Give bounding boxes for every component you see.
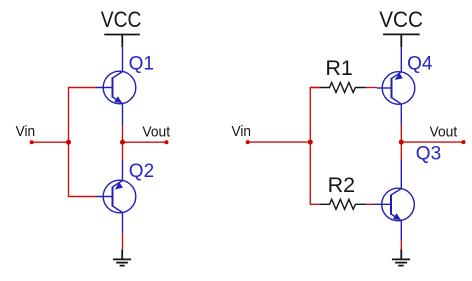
junction dot at Vin tee (right) — [308, 140, 313, 145]
wire R2 right lead to Q3 base — [366, 203, 373, 205]
ground symbol (right) — [392, 249, 410, 265]
resistor R2 — [319, 199, 366, 209]
svg-text:Vin: Vin — [232, 124, 252, 140]
ground symbol (left) — [113, 249, 131, 265]
transistor Q1 (NPN) — [96, 47, 136, 125]
svg-text:VCC: VCC — [101, 7, 142, 32]
wire Vout stub (left) — [123, 141, 167, 143]
wire Q2 emitter to ground (left) — [122, 233, 124, 249]
junction dot at Vout tee (left) — [120, 140, 125, 145]
svg-text:R1: R1 — [325, 56, 352, 80]
resistor R1 — [319, 83, 366, 93]
wire R1 left lead to bus — [310, 87, 319, 89]
wire Q4 emitter to Q3 collector (right output node) — [400, 125, 402, 161]
svg-text:Vout: Vout — [430, 125, 458, 141]
junction dot at Vout tee (right) — [399, 140, 404, 145]
endpoint dot Vout (left) — [165, 140, 169, 144]
transistor Q4 (PNP) — [377, 47, 415, 125]
transistor Q2 (PNP) — [96, 160, 136, 233]
wire Vin stub (right) — [248, 141, 311, 143]
wire Vin stub (left) — [32, 141, 69, 143]
svg-text:Q3: Q3 — [416, 144, 441, 165]
svg-text:R2: R2 — [328, 173, 355, 197]
svg-text:Vin: Vin — [16, 124, 35, 140]
wire vertical input bus (left) — [69, 88, 97, 197]
power VCC bar symbol (right) — [383, 34, 420, 47]
endpoint dot Vin (right) — [246, 140, 250, 144]
endpoint dot Vout (right) — [462, 140, 466, 144]
svg-text:VCC: VCC — [379, 7, 423, 32]
svg-text:Q2: Q2 — [129, 161, 154, 182]
junction dot at Vin tee (left) — [66, 140, 71, 145]
wire Vout stub (right) — [401, 141, 463, 143]
power VCC bar symbol (left) — [104, 35, 140, 48]
svg-text:Vout: Vout — [142, 125, 170, 141]
wire Q1 emitter to Q2 collector (left output node) — [122, 126, 124, 161]
svg-text:Q1: Q1 — [129, 54, 154, 75]
svg-text:Q4: Q4 — [407, 54, 433, 75]
wire R1 right lead to Q4 base — [366, 87, 377, 89]
endpoint dot Vin (left) — [30, 140, 34, 144]
transistor Q3 (NPN) — [373, 161, 414, 241]
wire Q3 emitter to ground (right) — [400, 241, 402, 250]
wire vertical input bus (right) — [310, 88, 319, 205]
